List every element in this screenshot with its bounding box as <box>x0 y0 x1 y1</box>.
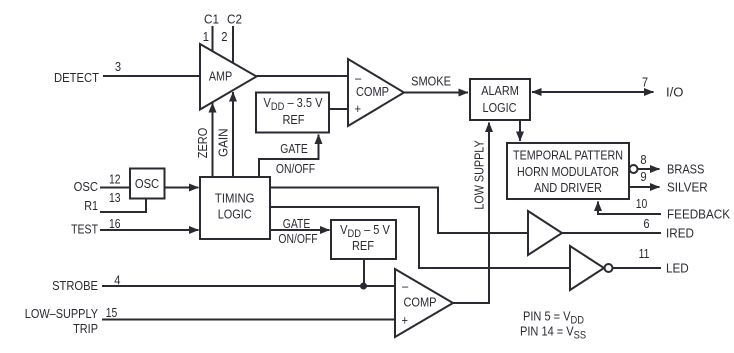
svg-text:I/O: I/O <box>666 85 683 100</box>
svg-text:C1: C1 <box>204 12 219 27</box>
svg-text:OSC: OSC <box>74 179 99 194</box>
comparator U5 triangle <box>395 269 453 337</box>
svg-text:GAIN: GAIN <box>216 128 231 157</box>
alarm logic box <box>470 79 530 120</box>
svg-text:LOW SUPPLY: LOW SUPPLY <box>472 140 487 209</box>
wire SILVER pin 9 arrow <box>629 186 660 188</box>
wire timing logic to LED inverter <box>270 207 570 268</box>
svg-text:TEST: TEST <box>71 221 98 236</box>
svg-text:IRED: IRED <box>666 226 694 241</box>
wire alarm logic to temporal block arrow <box>519 120 521 141</box>
wire LED pin 11 <box>613 267 662 269</box>
wire ZERO arrow into amp <box>212 103 214 177</box>
svg-text:12: 12 <box>109 172 121 186</box>
svg-text:ON/OFF: ON/OFF <box>278 232 317 246</box>
wire OSC pin 12 <box>100 187 130 189</box>
node strobe junction dot <box>360 283 367 290</box>
wire GAIN arrow into amp <box>232 92 234 177</box>
svg-text:3: 3 <box>115 59 121 74</box>
temporal pattern horn modulator box <box>507 143 629 199</box>
inverter U7 output bubble <box>605 264 613 272</box>
svg-text:REF: REF <box>282 112 304 127</box>
svg-text:13: 13 <box>109 191 121 205</box>
wire SMOKE arrow to alarm logic <box>404 92 468 94</box>
svg-text:LOW–SUPPLY: LOW–SUPPLY <box>25 306 98 321</box>
svg-text:OSC: OSC <box>135 176 160 191</box>
svg-text:+: + <box>355 101 362 116</box>
wire 5V ref to strobe node <box>363 259 365 286</box>
svg-text:TEMPORAL PATTERN: TEMPORAL PATTERN <box>513 148 623 163</box>
svg-text:R1: R1 <box>84 198 98 213</box>
svg-text:DETECT: DETECT <box>54 70 99 85</box>
wire STROBE pin 4 <box>102 285 395 287</box>
wire DETECT pin 3 <box>103 75 200 77</box>
comparator U3 triangle <box>348 59 404 126</box>
amp A1 triangle <box>200 44 257 110</box>
svg-text:–: – <box>402 279 408 294</box>
svg-text:ON/OFF: ON/OFF <box>276 162 315 176</box>
svg-text:10: 10 <box>636 197 648 211</box>
svg-text:AND DRIVER: AND DRIVER <box>534 180 602 195</box>
wire BRASS pin 8 arrow <box>638 168 660 170</box>
svg-text:2: 2 <box>221 29 227 44</box>
svg-text:4: 4 <box>114 273 120 288</box>
svg-text:LOGIC: LOGIC <box>218 206 252 221</box>
wire R1 pin 13 <box>100 199 146 213</box>
svg-text:15: 15 <box>106 306 118 320</box>
wire C2 pin 2 <box>232 26 234 63</box>
svg-text:LOGIC: LOGIC <box>483 100 517 115</box>
svg-text:11: 11 <box>639 247 650 261</box>
temporal block BRASS output bubble <box>630 165 638 173</box>
svg-text:C2: C2 <box>227 12 242 27</box>
reference U4 VDD-5V box <box>331 220 396 259</box>
wire OSC to timing logic arrow <box>165 187 199 189</box>
wire 3.5V ref to comparator plus input <box>329 108 348 110</box>
svg-text:VDD – 3.5 V: VDD – 3.5 V <box>264 95 323 113</box>
svg-text:ALARM: ALARM <box>481 83 519 98</box>
oscillator OSC box <box>130 169 165 199</box>
svg-text:9: 9 <box>640 169 646 184</box>
wire TEST pin 16 arrow <box>100 229 199 231</box>
svg-text:6: 6 <box>643 216 649 231</box>
wire C1 pin 1 <box>212 26 214 52</box>
svg-text:SILVER: SILVER <box>667 180 708 195</box>
wire amp output to comparator <box>257 75 349 77</box>
svg-text:16: 16 <box>109 217 121 231</box>
svg-text:HORN MODULATOR: HORN MODULATOR <box>517 164 619 179</box>
svg-text:+: + <box>402 313 409 328</box>
svg-text:SMOKE: SMOKE <box>411 74 451 89</box>
svg-text:7: 7 <box>642 75 648 90</box>
reference U2 VDD-3.5V box <box>256 93 329 133</box>
buffer U6 IRED triangle <box>528 211 562 255</box>
svg-text:GATE: GATE <box>280 142 308 156</box>
wire FEEDBACK pin 10 into temporal block arrow <box>598 202 661 215</box>
svg-text:ZERO: ZERO <box>195 128 210 158</box>
wire low supply comparator output to alarm logic arrow <box>453 123 489 304</box>
svg-text:COMP: COMP <box>403 295 436 310</box>
svg-text:8: 8 <box>640 152 646 167</box>
svg-text:TIMING: TIMING <box>215 191 255 206</box>
inverter U7 LED triangle <box>570 246 604 290</box>
svg-text:STROBE: STROBE <box>52 278 98 293</box>
wire LOW-SUPPLY TRIP pin 15 <box>102 319 395 321</box>
wire gate on/off to 5V ref arrow <box>270 229 330 231</box>
wire I/O pin 7 double arrow <box>532 91 654 93</box>
wire timing logic to IRED buffer <box>270 188 528 234</box>
svg-text:BRASS: BRASS <box>667 162 704 177</box>
svg-text:GATE: GATE <box>283 217 311 231</box>
wire gate on/off to 3.5V ref <box>259 135 319 178</box>
svg-text:LED: LED <box>666 261 689 276</box>
svg-text:REF: REF <box>352 238 374 253</box>
svg-text:FEEDBACK: FEEDBACK <box>667 207 731 222</box>
svg-text:TRIP: TRIP <box>73 321 98 336</box>
svg-text:COMP: COMP <box>356 84 389 99</box>
wire IRED pin 6 <box>562 232 661 234</box>
svg-text:1: 1 <box>203 29 209 44</box>
svg-text:AMP: AMP <box>209 69 232 84</box>
timing logic box <box>200 177 270 239</box>
